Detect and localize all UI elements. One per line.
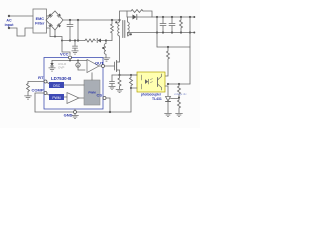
resistor R opto parallel [130,75,133,88]
svg-text:input: input [5,23,15,27]
node vcc x75 [74,39,76,41]
TL431 U3 [166,97,171,102]
opto pin right bottom [165,86,168,96]
wire fb line y47 [157,46,190,48]
pin RT circle [44,80,47,83]
svg-text:voltage div.: voltage div. [174,92,187,96]
node bottom rail x157 [156,31,158,33]
wire clamp top right [143,11,152,17]
capacitor C5 output [162,16,164,18]
phase dot secondary [130,33,132,35]
phase dot aux [102,47,104,49]
bridge diode D1 [48,13,52,17]
wire diode to rail [137,16,152,18]
node int x78 [77,60,79,62]
wire source [119,70,121,75]
wire pwm out [64,96,67,98]
node div mid [178,96,180,98]
node source [118,74,120,76]
capacitor C cs filter [111,75,113,81]
transformer T1 core [123,21,125,38]
node opto left top [130,74,132,76]
wire EMC to bridge top [47,15,52,17]
node neg rail x53 [54,36,56,38]
ground R div [176,112,183,114]
optocoupler U2 box [137,72,165,92]
wire RT left [28,82,44,84]
ground R sense [116,88,123,90]
node CS rail [109,111,111,113]
pin GND circle [74,111,77,114]
wire riser x190 [189,17,191,84]
svg-text:RT: RT [38,75,44,80]
svg-text:PWM: PWM [88,91,96,95]
ground symbol gnd pin [74,114,76,116]
current source internal [77,61,79,63]
resistor R vcc [85,39,96,42]
MOSFET Q1 [105,65,115,67]
wire block to driver [91,73,93,80]
svg-text:Filter: Filter [35,22,45,26]
svg-text:COMP: COMP [32,88,44,93]
node rail x119 [118,19,120,21]
svg-text:OUT: OUT [95,61,104,66]
ground R rt [25,95,32,97]
opto transistor [157,78,159,87]
gnd rail bottom [35,111,131,113]
node startup bottom [77,39,79,41]
svg-text:photocoupler: photocoupler [141,93,162,97]
node rail x190 top [189,16,191,18]
node opto left bottom [130,87,132,89]
bridge diode D2 [57,13,61,17]
opto LED [141,75,143,89]
PWM box [49,94,64,100]
svg-text:OSC: OSC [53,84,61,88]
node C1 bottom [69,39,71,41]
wire gnd stub [74,109,76,111]
AC input terminal bottom [8,27,10,29]
wire COMP left down [35,93,44,112]
pin VCC circle [69,56,72,59]
wire CS route [106,98,110,112]
svg-text:GND: GND [64,113,73,118]
svg-text:TL431: TL431 [152,97,162,101]
resistor R div upper [178,84,181,96]
diode D out plates [133,15,137,20]
OSC box [49,82,64,88]
node y84 x179 [178,83,180,85]
gray logic block [84,80,100,105]
aux winding [104,44,106,58]
resistor R out bleed [180,16,182,18]
driver triangle [87,60,99,73]
wire AC bottom with jog [9,28,33,36]
wire TL431 ref [171,98,180,100]
svg-text:LD7530-B: LD7530-B [51,76,71,81]
svg-text:CS: CS [96,93,102,98]
ground TL431 [165,112,172,114]
wire bridge bottom riser [54,30,56,37]
capacitor C vcc [74,41,76,46]
resistor R sense [118,75,121,89]
svg-text:EMC: EMC [36,17,45,21]
capacitor C1 bulk [69,20,71,24]
wire source line [112,74,137,76]
IC internal top line [52,60,87,62]
ground zener [49,67,55,69]
transformer T1 secondary winding [128,17,130,36]
wire rail DC+ [63,19,120,21]
node y84 x168 [167,83,169,85]
terminal out plus [191,16,194,18]
terminal out minus [191,32,194,34]
wire AC top [9,15,33,17]
resistor R rt [27,84,30,96]
svg-text:VCC: VCC [60,52,69,57]
bridge rectifier BD1 diamond [46,11,63,30]
diode D vcc [96,39,98,43]
wire fb y84 [168,83,190,85]
wire output rail top [152,16,191,18]
opto pin left bottom [131,87,137,89]
wire startup drop [77,20,79,41]
wire osc out [64,84,84,86]
node fb x168 [167,46,169,48]
capacitor C6 output [171,16,173,18]
zener internal [51,61,53,64]
wire aux to startup [106,40,112,42]
wire output rail bottom [128,32,192,34]
wire COMP to box [47,94,49,95]
node neg x62 [61,40,63,42]
wire VCC chain [62,40,85,42]
node rail x190 bottom [189,31,191,33]
transformer T1 primary winding [118,20,120,62]
IC U1 LD7530 box [44,58,103,110]
wire EMC to bridge bottom [47,28,51,37]
ground C cs [109,85,115,87]
resistor R led series [165,47,170,76]
resistor R clamp [131,10,143,13]
wire driver out [99,65,102,67]
node int x70 [69,60,71,62]
node rail x78 [77,19,79,21]
AC input terminal top [8,15,10,17]
node rail x70 [69,19,71,21]
pin COMP circle [44,92,47,95]
comparator triangle [67,93,79,104]
wire comp out [79,97,84,99]
ground aux [103,57,110,59]
EMC filter box [33,9,47,33]
svg-text:PWM: PWM [52,96,60,100]
pin CS circle [103,97,106,100]
wire clamp cap left [127,11,133,17]
node rail x112 [111,19,113,21]
node top rail x157 [156,16,158,18]
ground C vcc [72,50,78,52]
resistor R div lower [178,98,181,114]
wire RT to box [47,83,49,84]
wire opto riser to gnd rail [130,88,132,112]
bridge diode D4 [57,24,61,28]
node aux junction [105,39,107,41]
pin OUT circle [102,65,105,68]
wire clamp riser [120,11,132,20]
phase dot primary [115,21,117,23]
opto pin left top [121,74,137,76]
wire riser x157 [156,17,158,47]
wire neg rail [50,37,70,55]
bridge diode D3 [48,24,52,28]
svg-text:OVP: OVP [58,66,64,70]
resistor R startup [111,20,114,41]
